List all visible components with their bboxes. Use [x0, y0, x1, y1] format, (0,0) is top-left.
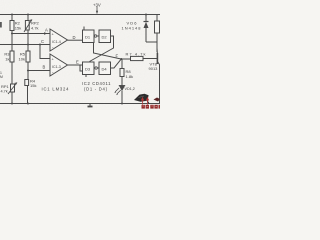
gate D2: [99, 30, 111, 43]
gate D3: [83, 62, 95, 75]
wire column R2/R3/RP1: [11, 15, 13, 104]
svg-text:9013: 9013: [149, 66, 159, 71]
svg-text:D3: D3: [85, 67, 91, 72]
+3V supply arrow: [96, 7, 98, 15]
red caption text: [142, 105, 161, 109]
resistor R2: [10, 21, 14, 31]
svg-text:10k: 10k: [19, 57, 25, 62]
svg-text:D: D: [73, 35, 76, 40]
node C: [27, 44, 29, 46]
potentiometer RP1: [8, 83, 17, 95]
svg-text:(D1 - D4): (D1 - D4): [84, 87, 108, 92]
wire R7 to transistor base: [143, 58, 157, 60]
dark red mark right edge: [154, 98, 161, 102]
wire stub above gate D1: [83, 27, 85, 31]
wire node B to op-amp2: [28, 70, 50, 72]
svg-text:1k: 1k: [5, 57, 9, 62]
svg-text:F: F: [116, 54, 119, 59]
svg-text:RP1: RP1: [1, 84, 10, 89]
wire node C to op-amp: [0, 44, 50, 46]
wire node F to R7: [121, 58, 131, 60]
svg-text:1N4148: 1N4148: [122, 26, 142, 31]
svg-text:D4: D4: [102, 67, 108, 72]
svg-text:E: E: [76, 60, 79, 65]
svg-text:IC2 CD4011: IC2 CD4011: [82, 81, 111, 86]
wire column RP2/R5/R4: [27, 15, 30, 104]
potentiometer RP2: [24, 20, 32, 33]
background: [0, 0, 160, 110]
svg-text:IC1-3: IC1-3: [52, 65, 61, 69]
resistor R6 top right: [155, 21, 160, 33]
resistor R1 (left edge, partly cut): [0, 22, 2, 28]
svg-text:IC1 LM324: IC1 LM324: [42, 87, 70, 92]
resistor R3: [10, 51, 14, 62]
svg-text:IC1-4: IC1-4: [52, 40, 61, 44]
svg-text:C: C: [41, 39, 44, 44]
op-amp U1 IC1-4: [50, 29, 68, 51]
transistor VT8 9013: [157, 42, 160, 104]
wire R6 branch top right: [156, 15, 158, 53]
wire top rail: [0, 14, 160, 16]
resistor R5: [26, 51, 30, 62]
red arrows: [141, 97, 149, 105]
gate D4: [99, 62, 111, 75]
wire gate D4 output up to node F: [111, 59, 122, 68]
wire op-amp1 output to gate D1: [68, 39, 83, 41]
svg-text:B: B: [43, 65, 46, 70]
wire node A to op-amp: [12, 33, 50, 35]
svg-text:A: A: [45, 28, 48, 33]
gate D1: [83, 30, 95, 43]
svg-text:+3V: +3V: [93, 2, 101, 7]
resistor R4: [25, 80, 29, 86]
svg-text:VD1,2: VD1,2: [125, 87, 135, 91]
wire gate D1 to D2: [97, 35, 99, 37]
svg-text:4.7k: 4.7k: [1, 90, 8, 94]
svg-text:1.8k: 1.8k: [126, 74, 134, 79]
wire gate D3 to D4: [97, 67, 99, 69]
junction dots on rails: [11, 14, 13, 16]
svg-text:15k: 15k: [30, 83, 36, 88]
svg-text:D1: D1: [85, 35, 91, 40]
wire bottom rail: [0, 103, 160, 105]
resistor R8: [120, 69, 124, 77]
svg-text:4.7k: 4.7k: [31, 26, 39, 31]
LED VD1,2: [114, 86, 125, 96]
photodiode black shape bottom right: [134, 94, 149, 102]
svg-text:M: M: [0, 75, 3, 79]
resistor R7: [131, 56, 144, 60]
op-amp U2 IC1-3: [50, 54, 68, 76]
wire gate D2 output down and cross to D3: [90, 36, 114, 62]
node B: [27, 70, 29, 72]
ground tick on bottom rail: [89, 104, 91, 107]
wire gate D1 corner down and cross to node F: [94, 43, 122, 60]
wire VD6 branch: [146, 15, 157, 43]
node A: [11, 33, 13, 35]
wire op-amp2 output to gate D3: [68, 65, 87, 77]
svg-text:15k: 15k: [15, 26, 21, 31]
wire column R8/LED: [121, 59, 123, 104]
diode VD6 1N4148: [144, 22, 149, 29]
svg-text:D2: D2: [102, 35, 108, 40]
wire C to op-amp2 plus input: [40, 45, 50, 59]
